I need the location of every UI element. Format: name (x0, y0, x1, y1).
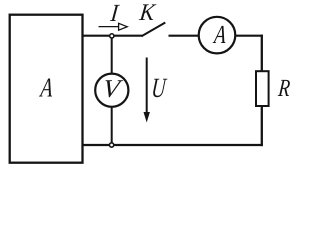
node bottom (109, 143, 113, 147)
wire top: box to node (83, 35, 109, 37)
node top (110, 34, 114, 38)
wire: ammeter to right corner (235, 35, 263, 37)
wire: switch to ammeter (169, 35, 199, 37)
wire top: node to switch pivot (115, 35, 143, 37)
switch K blade (142, 23, 166, 37)
voltmeter U2 (95, 74, 128, 107)
voltmeter branch wire upper (111, 39, 113, 74)
source box A (10, 15, 83, 163)
wire right vertical lower (261, 106, 263, 146)
current arrow I (99, 26, 119, 28)
ammeter U1 (199, 17, 236, 54)
voltage arrow U (146, 58, 148, 115)
resistor R (256, 71, 269, 106)
wire bottom (83, 144, 263, 146)
voltmeter branch wire lower (111, 108, 113, 143)
wire right vertical upper (261, 35, 263, 72)
